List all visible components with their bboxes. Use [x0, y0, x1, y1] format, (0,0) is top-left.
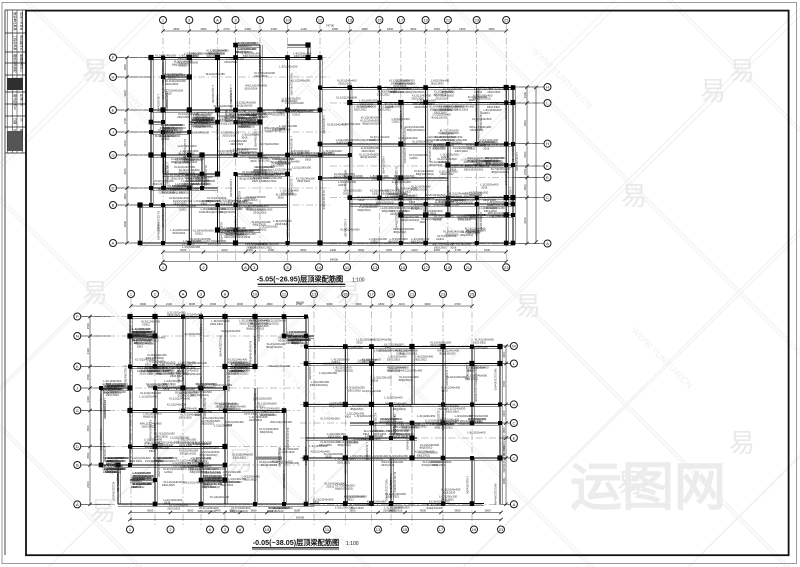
svg-text:2Φ20;2Φ22: 2Φ20;2Φ22 [297, 180, 311, 183]
svg-text:2Φ16;2Φ18: 2Φ16;2Φ18 [319, 444, 333, 447]
svg-text:工程名称某: 工程名称某 [13, 35, 18, 50]
svg-text:1500: 1500 [523, 120, 527, 127]
svg-text:L-1(2)200x400: L-1(2)200x400 [254, 129, 258, 148]
svg-text:日期: 日期 [13, 118, 18, 124]
svg-text:2400: 2400 [330, 248, 337, 252]
svg-text:2Φ20;2Φ22: 2Φ20;2Φ22 [414, 358, 428, 361]
svg-text:G2Φ12: G2Φ12 [224, 424, 233, 427]
svg-text:KL9(2)240x450: KL9(2)240x450 [327, 123, 347, 127]
svg-text:2Φ16;2Φ18: 2Φ16;2Φ18 [106, 394, 120, 397]
svg-text:L-8(2)200x400: L-8(2)200x400 [157, 222, 161, 241]
svg-text:房地产开发有: 房地产开发有 [20, 12, 25, 31]
svg-text:易: 易 [729, 56, 755, 86]
svg-text:3Φ18: 3Φ18 [250, 160, 257, 163]
svg-text:84000: 84000 [296, 301, 305, 305]
beam annotation labels plan B [99, 310, 506, 513]
svg-text:G2Φ12: G2Φ12 [275, 510, 284, 513]
svg-text:KL16(4)240x500: KL16(4)240x500 [155, 53, 176, 57]
svg-text:Φ8@200(2): Φ8@200(2) [358, 209, 371, 212]
svg-text:Φ8@200(2): Φ8@200(2) [388, 241, 401, 244]
svg-text:3Φ18: 3Φ18 [358, 199, 365, 202]
svg-text:1800: 1800 [123, 64, 127, 71]
svg-text:Φ8@100/200(2): Φ8@100/200(2) [335, 370, 353, 373]
svg-text:2Φ20;2Φ22: 2Φ20;2Φ22 [173, 465, 187, 468]
svg-text:L-8(2)200x400: L-8(2)200x400 [322, 116, 326, 135]
svg-text:2Φ16;2Φ18: 2Φ16;2Φ18 [282, 451, 296, 454]
svg-text:K: K [76, 364, 79, 369]
svg-text:KL7(3)240x500: KL7(3)240x500 [192, 124, 212, 128]
svg-text:建设单位某某: 建设单位某某 [13, 12, 18, 31]
svg-text:KL3(1)240x400: KL3(1)240x400 [116, 473, 120, 493]
svg-text:KL9(2)240x450: KL9(2)240x450 [220, 222, 224, 242]
svg-text:WKL2(2)240x400: WKL2(2)240x400 [494, 483, 498, 505]
svg-text:G2Φ12: G2Φ12 [258, 228, 267, 231]
svg-text:Φ8@200(2): Φ8@200(2) [338, 444, 351, 447]
svg-text:2Φ20;2Φ22: 2Φ20;2Φ22 [411, 97, 425, 100]
svg-text:Φ8@200(2): Φ8@200(2) [411, 241, 424, 244]
svg-text:Φ8@200(2): Φ8@200(2) [429, 164, 442, 167]
svg-text:Φ10@100/200: Φ10@100/200 [265, 130, 282, 133]
svg-text:Φ8@200(2): Φ8@200(2) [382, 210, 395, 213]
svg-text:2Φ18;3Φ20: 2Φ18;3Φ20 [172, 232, 186, 235]
svg-text:L-3(1)200x350: L-3(1)200x350 [428, 144, 432, 163]
svg-text:3Φ18: 3Φ18 [483, 148, 490, 151]
svg-text:KL12(2)240x600: KL12(2)240x600 [169, 396, 190, 400]
svg-text:2Φ20;2Φ22: 2Φ20;2Φ22 [165, 83, 179, 86]
svg-text:Φ8@200(2): Φ8@200(2) [207, 55, 220, 58]
svg-text:3Φ18: 3Φ18 [325, 456, 332, 459]
svg-text:KL7(3)240x500: KL7(3)240x500 [260, 142, 280, 146]
svg-text:L-1(2)200x400: L-1(2)200x400 [445, 367, 449, 386]
svg-text:2Φ20;2Φ22: 2Φ20;2Φ22 [230, 143, 244, 146]
svg-text:17: 17 [439, 527, 444, 532]
svg-text:13: 13 [348, 18, 353, 23]
svg-text:2Φ16;2Φ18: 2Φ16;2Φ18 [435, 97, 449, 100]
svg-text:3300: 3300 [410, 27, 417, 31]
svg-text:L-3(1)200x350: L-3(1)200x350 [182, 245, 201, 249]
svg-text:L-3(1)200x350: L-3(1)200x350 [124, 365, 128, 384]
svg-text:2Φ16;2Φ18: 2Φ16;2Φ18 [244, 87, 258, 90]
svg-text:KL12(2)240x600: KL12(2)240x600 [370, 375, 374, 396]
svg-text:1500: 1500 [86, 425, 90, 432]
svg-text:KL12(2)240x600: KL12(2)240x600 [475, 215, 479, 236]
svg-text:Φ8@100/200(2): Φ8@100/200(2) [230, 510, 248, 513]
svg-text:2Φ20;2Φ22: 2Φ20;2Φ22 [224, 236, 238, 239]
svg-text:G2Φ12: G2Φ12 [371, 241, 380, 244]
svg-text:2Φ20;2Φ22: 2Φ20;2Φ22 [483, 199, 497, 202]
svg-text:2Φ16;2Φ18: 2Φ16;2Φ18 [294, 55, 308, 58]
svg-text:Φ8@100/200(2): Φ8@100/200(2) [132, 340, 150, 343]
svg-text:筋图结构施工: 筋图结构施工 [20, 54, 25, 73]
svg-text:13: 13 [376, 527, 381, 532]
svg-text:2Φ20;2Φ22: 2Φ20;2Φ22 [263, 180, 277, 183]
svg-text:L-5(1)200x300: L-5(1)200x300 [99, 394, 103, 413]
svg-text:2Φ16;2Φ18: 2Φ16;2Φ18 [389, 510, 403, 513]
svg-text:2Φ20;2Φ22: 2Φ20;2Φ22 [103, 471, 117, 474]
svg-text:3Φ18: 3Φ18 [186, 178, 193, 181]
svg-text:Φ8@100/200(2): Φ8@100/200(2) [310, 384, 328, 387]
svg-text:Φ8@100/200(2): Φ8@100/200(2) [230, 373, 248, 376]
svg-text:KL9(2)240x450: KL9(2)240x450 [361, 438, 381, 442]
svg-text:Φ10@100/200: Φ10@100/200 [157, 444, 174, 447]
svg-text:15: 15 [401, 265, 406, 270]
svg-text:L-8(2)200x400: L-8(2)200x400 [467, 431, 486, 435]
svg-text:Φ8@100/200(2): Φ8@100/200(2) [401, 219, 419, 222]
svg-text:L-3(1)200x350: L-3(1)200x350 [508, 187, 512, 206]
svg-text:WKL2(2)240x400: WKL2(2)240x400 [494, 369, 498, 391]
svg-text:3300: 3300 [86, 396, 90, 403]
svg-text:KL16(4)240x500: KL16(4)240x500 [153, 424, 157, 445]
svg-text:2Φ20;2Φ22: 2Φ20;2Φ22 [272, 114, 286, 117]
svg-text:3600: 3600 [237, 302, 244, 306]
svg-text:Φ8@100/200(2): Φ8@100/200(2) [172, 64, 190, 67]
svg-text:LL2(1)200x300: LL2(1)200x300 [258, 55, 262, 74]
svg-text:A: A [216, 18, 219, 23]
svg-text:L-5(1)200x300: L-5(1)200x300 [466, 476, 470, 495]
svg-text:L-1(2)200x400: L-1(2)200x400 [504, 101, 508, 120]
svg-text:易: 易 [729, 428, 755, 458]
svg-text:3Φ18: 3Φ18 [345, 415, 352, 418]
vertical grid axes plan B [131, 298, 472, 526]
svg-text:Φ8@100/200(2): Φ8@100/200(2) [389, 458, 407, 461]
svg-text:L-1(2)200x400: L-1(2)200x400 [216, 122, 220, 141]
svg-text:A: A [76, 502, 79, 507]
svg-text:A: A [209, 527, 212, 532]
grid bubbles top row plan A [160, 17, 167, 24]
svg-text:2Φ16;2Φ18: 2Φ16;2Φ18 [458, 219, 472, 222]
svg-text:25: 25 [470, 292, 475, 297]
svg-text:2Φ20;2Φ22: 2Φ20;2Φ22 [104, 392, 118, 395]
svg-text:Φ8@100/200(2): Φ8@100/200(2) [172, 192, 190, 195]
svg-text:2Φ20;2Φ22: 2Φ20;2Φ22 [167, 508, 181, 511]
svg-text:L-1(2)200x400: L-1(2)200x400 [377, 106, 381, 125]
svg-text:1500: 1500 [459, 27, 466, 31]
svg-text:L-8(2)200x400: L-8(2)200x400 [231, 151, 250, 155]
svg-text:2Φ16;2Φ18: 2Φ16;2Φ18 [237, 236, 251, 239]
svg-text:LL2(1)200x300: LL2(1)200x300 [515, 152, 519, 171]
svg-text:10: 10 [285, 18, 290, 23]
svg-text:2Φ16;2Φ18: 2Φ16;2Φ18 [338, 82, 352, 85]
grid bubbles left column plan B [74, 313, 81, 320]
svg-text:3Φ18: 3Φ18 [149, 450, 156, 453]
svg-text:L-1(2)200x400: L-1(2)200x400 [384, 395, 403, 399]
svg-text:54000: 54000 [296, 516, 305, 520]
svg-text:2Φ18;3Φ20: 2Φ18;3Φ20 [434, 247, 448, 250]
svg-text:WKL2(2)240x400: WKL2(2)240x400 [99, 429, 103, 451]
svg-text:Φ10@100/200: Φ10@100/200 [180, 453, 197, 456]
svg-text:L-5(1)200x300: L-5(1)200x300 [278, 447, 282, 466]
svg-text:KL7(3)240x500: KL7(3)240x500 [181, 389, 185, 409]
svg-text:Φ10@100/200: Φ10@100/200 [336, 142, 353, 145]
svg-text:H: H [546, 141, 549, 146]
svg-text:3000: 3000 [189, 302, 196, 306]
svg-text:3Φ18: 3Φ18 [134, 342, 141, 345]
svg-text:WKL2(2)240x400: WKL2(2)240x400 [385, 479, 389, 501]
svg-text:2Φ20;2Φ22: 2Φ20;2Φ22 [153, 183, 167, 186]
svg-text:3Φ18: 3Φ18 [163, 389, 170, 392]
svg-text:KL9(2)240x450: KL9(2)240x450 [424, 201, 428, 221]
walls plan A [140, 45, 515, 245]
svg-text:WKL2(2)240x400: WKL2(2)240x400 [219, 335, 223, 357]
svg-text:2Φ20;2Φ22: 2Φ20;2Φ22 [233, 457, 247, 460]
svg-text:M: M [512, 344, 515, 349]
svg-text:2Φ20;2Φ22: 2Φ20;2Φ22 [182, 243, 196, 246]
svg-text:L-8(2)200x400: L-8(2)200x400 [394, 212, 398, 231]
svg-text:KL12(2)240x600: KL12(2)240x600 [336, 96, 357, 100]
svg-text:Φ8@200(2): Φ8@200(2) [143, 415, 156, 418]
svg-text:2100: 2100 [123, 140, 127, 147]
svg-text:L-5(1)200x300: L-5(1)200x300 [182, 332, 201, 336]
svg-text:KL1(2)240x500: KL1(2)240x500 [210, 495, 230, 499]
svg-text:2Φ18;3Φ20: 2Φ18;3Φ20 [473, 341, 487, 344]
svg-text:2Φ18;3Φ20: 2Φ18;3Φ20 [184, 161, 198, 164]
svg-text:2Φ16;2Φ18: 2Φ16;2Φ18 [446, 410, 460, 413]
svg-text:KL16(4)240x500: KL16(4)240x500 [382, 417, 403, 421]
svg-text:2Φ20;2Φ22: 2Φ20;2Φ22 [129, 460, 143, 463]
svg-text:1500: 1500 [523, 184, 527, 191]
svg-text:Φ10@100/200: Φ10@100/200 [271, 161, 288, 164]
svg-text:74700: 74700 [326, 24, 335, 28]
svg-text:Φ8@200(2): Φ8@200(2) [236, 51, 249, 54]
top dimension chain plan A [163, 30, 506, 32]
svg-text:13: 13 [312, 292, 317, 297]
svg-text:1500: 1500 [523, 151, 527, 158]
left dimension chain plan A [126, 58, 128, 244]
svg-text:KL1(2)240x500: KL1(2)240x500 [403, 128, 407, 148]
svg-text:A: A [546, 241, 549, 246]
grid bubbles left column plan A [110, 54, 117, 61]
svg-text:易: 易 [621, 181, 647, 211]
svg-text:54000: 54000 [330, 257, 339, 261]
svg-text:G: G [76, 408, 79, 413]
svg-text:H: H [546, 85, 549, 90]
svg-text:Φ8@100/200(2): Φ8@100/200(2) [464, 195, 482, 198]
svg-text:2700: 2700 [223, 27, 230, 31]
svg-text:2Φ20;2Φ22: 2Φ20;2Φ22 [203, 486, 217, 489]
svg-text:23: 23 [441, 292, 446, 297]
svg-text:17: 17 [399, 18, 404, 23]
svg-text:L-1(2)200x400: L-1(2)200x400 [403, 145, 407, 164]
svg-text:L-3(1)200x350: L-3(1)200x350 [211, 85, 215, 104]
svg-text:Φ8@200(2): Φ8@200(2) [417, 455, 430, 458]
svg-text:Φ8@200(2): Φ8@200(2) [399, 379, 412, 382]
svg-text:2Φ16;2Φ18: 2Φ16;2Φ18 [487, 106, 501, 109]
svg-text:Φ10@100/200: Φ10@100/200 [266, 346, 283, 349]
svg-text:LL2(1)200x300: LL2(1)200x300 [253, 336, 257, 355]
svg-text:2Φ20;2Φ22: 2Φ20;2Φ22 [167, 314, 181, 317]
svg-text:KL7(3)240x500: KL7(3)240x500 [253, 393, 257, 413]
svg-text:L-3(1)200x350: L-3(1)200x350 [393, 416, 397, 435]
svg-text:LL2(1)200x300: LL2(1)200x300 [292, 165, 311, 169]
svg-text:1500: 1500 [200, 27, 207, 31]
svg-text:3Φ18: 3Φ18 [270, 510, 277, 513]
svg-text:L-5(1)200x300: L-5(1)200x300 [229, 91, 233, 110]
svg-text:Φ8@200(2): Φ8@200(2) [253, 224, 266, 227]
svg-text:2Φ20;2Φ22: 2Φ20;2Φ22 [362, 361, 376, 364]
svg-text:Φ10@100/200: Φ10@100/200 [219, 211, 236, 214]
svg-text:G2Φ12: G2Φ12 [326, 486, 335, 489]
beam annotation labels plan A [153, 41, 520, 250]
svg-text:KL16(4)240x500: KL16(4)240x500 [161, 79, 165, 100]
svg-text:L-5(1)200x300: L-5(1)200x300 [365, 442, 369, 461]
svg-text:2Φ20;2Φ22: 2Φ20;2Φ22 [430, 344, 444, 347]
svg-text:Φ10@100/200: Φ10@100/200 [439, 353, 456, 356]
svg-text:1500: 1500 [210, 302, 217, 306]
svg-text:G2Φ12: G2Φ12 [399, 210, 408, 213]
svg-text:2Φ20;2Φ22: 2Φ20;2Φ22 [220, 484, 234, 487]
svg-text:L-5(1)200x300: L-5(1)200x300 [234, 216, 238, 235]
svg-text:2100: 2100 [123, 168, 127, 175]
svg-text:1800: 1800 [355, 302, 362, 306]
svg-text:WKL2(2)240x400: WKL2(2)240x400 [389, 474, 393, 496]
svg-text:KL9(2)240x450: KL9(2)240x450 [206, 72, 226, 76]
svg-text:KL1(2)240x500: KL1(2)240x500 [112, 482, 116, 502]
svg-text:21: 21 [410, 292, 415, 297]
svg-text:WKL2(2)240x400: WKL2(2)240x400 [270, 420, 292, 424]
svg-text:Φ8@100/200(2): Φ8@100/200(2) [416, 173, 434, 176]
svg-text:2Φ16;2Φ18: 2Φ16;2Φ18 [449, 142, 463, 145]
svg-text:2Φ20;2Φ22: 2Φ20;2Φ22 [470, 169, 484, 172]
svg-text:3Φ18: 3Φ18 [249, 247, 256, 250]
svg-text:Φ8@200(2): Φ8@200(2) [379, 421, 392, 424]
svg-text:L-8(2)200x400: L-8(2)200x400 [374, 349, 393, 353]
svg-text:比例1:10: 比例1:10 [20, 94, 25, 106]
svg-text:3Φ18: 3Φ18 [409, 201, 416, 204]
columns plan A [137, 42, 515, 245]
svg-text:2Φ20;2Φ22: 2Φ20;2Φ22 [259, 247, 273, 250]
svg-text:H: H [512, 402, 515, 407]
svg-text:LL2(1)200x300: LL2(1)200x300 [399, 136, 418, 140]
svg-text:KL12(2)240x600: KL12(2)240x600 [183, 139, 187, 160]
columns plan B [99, 314, 503, 506]
svg-text:WKL2(2)240x400: WKL2(2)240x400 [343, 170, 347, 192]
svg-text:KL3(1)240x400: KL3(1)240x400 [511, 143, 515, 163]
svg-text:C: C [546, 195, 549, 200]
svg-text:3Φ18: 3Φ18 [291, 342, 298, 345]
svg-text:1:100: 1:100 [346, 541, 359, 547]
svg-text:易: 易 [82, 278, 108, 308]
svg-text:KL7(3)240x500: KL7(3)240x500 [162, 160, 166, 180]
grid bubbles bottom row plan A [160, 264, 167, 271]
left dimension chain plan B [89, 317, 91, 505]
svg-text:2Φ20;2Φ22: 2Φ20;2Φ22 [391, 91, 405, 94]
svg-text:2100: 2100 [398, 302, 405, 306]
svg-text:G2Φ12: G2Φ12 [204, 484, 213, 487]
svg-text:KL1(2)240x500: KL1(2)240x500 [275, 157, 295, 161]
svg-text:2Φ20;2Φ22: 2Φ20;2Φ22 [377, 94, 391, 97]
svg-text:WKL2(2)240x400: WKL2(2)240x400 [475, 100, 479, 122]
svg-text:2Φ20;2Φ22: 2Φ20;2Φ22 [441, 173, 455, 176]
svg-text:19: 19 [472, 527, 477, 532]
svg-text:10: 10 [265, 527, 270, 532]
svg-text:3900: 3900 [361, 27, 368, 31]
svg-text:G2Φ12: G2Φ12 [292, 114, 301, 117]
svg-text:2Φ18;3Φ20: 2Φ18;3Φ20 [179, 417, 193, 420]
svg-text:L-1(2)200x400: L-1(2)200x400 [479, 206, 498, 210]
svg-text:L-5(1)200x300: L-5(1)200x300 [295, 110, 314, 114]
svg-text:L-8(2)200x400: L-8(2)200x400 [382, 156, 386, 175]
svg-text:2700: 2700 [123, 117, 127, 124]
svg-text:KL9(2)240x450: KL9(2)240x450 [181, 362, 185, 382]
svg-text:L-8(2)200x400: L-8(2)200x400 [229, 179, 233, 198]
svg-text:L-1(2)200x400: L-1(2)200x400 [469, 346, 488, 350]
svg-text:Φ8@100/200(2): Φ8@100/200(2) [198, 510, 216, 513]
bottom dimension chains plan B [130, 512, 501, 514]
svg-text:17: 17 [424, 265, 429, 270]
svg-text:2Φ16;2Φ18: 2Φ16;2Φ18 [149, 373, 163, 376]
svg-text:KL16(4)240x500: KL16(4)240x500 [188, 130, 209, 134]
grid bubbles right column plan A [544, 84, 551, 91]
svg-text:-5.05(~26.95)层顶梁配筋图: -5.05(~26.95)层顶梁配筋图 [257, 275, 343, 284]
horizontal grid axes plan B [81, 317, 510, 505]
svg-text:G2Φ12: G2Φ12 [166, 192, 175, 195]
svg-text:Φ8@200(2): Φ8@200(2) [441, 91, 454, 94]
svg-text:G2Φ12: G2Φ12 [343, 192, 352, 195]
svg-text:2Φ18;3Φ20: 2Φ18;3Φ20 [441, 498, 455, 501]
svg-text:1800: 1800 [266, 302, 273, 306]
svg-text:易: 易 [82, 56, 108, 86]
svg-text:A: A [244, 265, 247, 270]
svg-text:G2Φ12: G2Φ12 [346, 498, 355, 501]
svg-text:L-3(1)200x350: L-3(1)200x350 [279, 64, 298, 68]
svg-text:Φ10@100/200: Φ10@100/200 [431, 116, 448, 119]
svg-text:3Φ18: 3Φ18 [481, 187, 488, 190]
svg-text:19: 19 [446, 265, 451, 270]
svg-text:2Φ18;3Φ20: 2Φ18;3Φ20 [230, 361, 244, 364]
svg-text:KL3(1)240x400: KL3(1)240x400 [394, 176, 398, 196]
svg-text:WKL2(2)240x400: WKL2(2)240x400 [290, 73, 294, 95]
svg-text:2Φ20;2Φ22: 2Φ20;2Φ22 [224, 61, 238, 64]
svg-text:2100: 2100 [523, 91, 527, 98]
svg-text:Φ10@100/200: Φ10@100/200 [236, 104, 253, 107]
svg-text:2Φ18;3Φ20: 2Φ18;3Φ20 [453, 199, 467, 202]
svg-text:L-8(2)200x400: L-8(2)200x400 [157, 94, 161, 113]
svg-text:G2Φ12: G2Φ12 [164, 471, 173, 474]
svg-text:13: 13 [373, 265, 378, 270]
svg-text:Φ8@200(2): Φ8@200(2) [434, 204, 447, 207]
svg-text:3000: 3000 [424, 302, 431, 306]
svg-text:3Φ18: 3Φ18 [450, 168, 457, 171]
svg-text:2100: 2100 [86, 348, 90, 355]
svg-text:1500: 1500 [86, 323, 90, 330]
svg-text:1800: 1800 [123, 193, 127, 200]
svg-text:G2Φ12: G2Φ12 [199, 211, 208, 214]
svg-text:KL9(2)240x450: KL9(2)240x450 [479, 111, 483, 131]
title block strip [5, 10, 26, 555]
svg-text:1:100: 1:100 [352, 278, 365, 284]
svg-text:H: H [112, 75, 115, 80]
svg-text:2Φ20;2Φ22: 2Φ20;2Φ22 [208, 243, 222, 246]
svg-text:KL9(2)240x450: KL9(2)240x450 [221, 329, 241, 333]
svg-text:1500: 1500 [434, 27, 441, 31]
svg-text:D: D [112, 186, 115, 191]
svg-text:Φ8@200(2): Φ8@200(2) [460, 234, 473, 237]
grid bubbles right column plan B [510, 343, 517, 350]
svg-text:2Φ20;2Φ22: 2Φ20;2Φ22 [258, 159, 272, 162]
svg-text:3000: 3000 [147, 508, 154, 512]
svg-text:2Φ20;2Φ22: 2Φ20;2Φ22 [487, 91, 501, 94]
svg-text:P: P [76, 314, 79, 319]
svg-text:2Φ16;2Φ18: 2Φ16;2Φ18 [394, 436, 408, 439]
svg-text:KL1(2)240x500: KL1(2)240x500 [157, 458, 161, 478]
svg-text:E: E [112, 108, 115, 113]
svg-text:25: 25 [504, 18, 509, 23]
svg-text:C: C [512, 456, 515, 461]
svg-text:3Φ18: 3Φ18 [277, 196, 284, 199]
svg-text:2Φ16;2Φ18: 2Φ16;2Φ18 [351, 507, 365, 510]
top dimension chain plan B [131, 305, 472, 307]
svg-text:2Φ16;2Φ18: 2Φ16;2Φ18 [387, 370, 401, 373]
